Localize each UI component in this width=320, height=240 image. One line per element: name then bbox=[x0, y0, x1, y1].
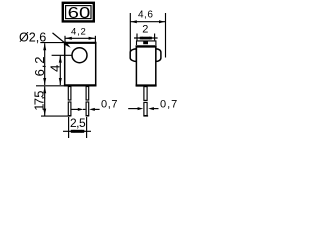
arrow pointing left at lead bbox=[148, 107, 154, 110]
short joint line to right lead bbox=[83, 108, 85, 110]
extension line right of 4,2 bbox=[94, 36, 96, 42]
arrow down 17,5 bbox=[43, 109, 46, 116]
arrow down 4 bbox=[59, 78, 62, 85]
line right of arrow to text bbox=[94, 108, 99, 110]
arrow pointing left at right lead bbox=[89, 108, 95, 111]
top reference line for 6,2 bbox=[40, 42, 64, 44]
dimension line 2,5 bbox=[63, 130, 91, 132]
arrow left 4,2 bbox=[65, 37, 72, 40]
arrow up 17,5 bbox=[43, 87, 46, 94]
right lead upper segment bbox=[86, 87, 89, 101]
dimension 0,7 left: line between leads bbox=[72, 108, 79, 110]
arrow left 4,6 bbox=[131, 20, 137, 23]
side body rectangle bbox=[136, 46, 155, 85]
dimension line 4,2 bbox=[65, 37, 95, 39]
svg-text:0,7: 0,7 bbox=[160, 98, 178, 110]
arrow up 6,2 bbox=[43, 43, 46, 50]
thick middle bar 2 bbox=[140, 37, 152, 40]
dimension line 17,5 bbox=[44, 86, 46, 115]
svg-text:17,5: 17,5 bbox=[32, 91, 47, 111]
side lead bottom cap bbox=[143, 115, 148, 117]
lead end extension line bbox=[41, 115, 70, 117]
svg-text:0,7: 0,7 bbox=[101, 98, 118, 110]
case number box inner frame bbox=[66, 6, 91, 19]
arrow down 6,2 bbox=[43, 78, 46, 85]
extension line right for 2,5 bbox=[86, 117, 88, 138]
leader line from Ø2,6 to hole bbox=[53, 33, 69, 46]
dimension line 4,6 bbox=[130, 21, 165, 23]
extension line right 4,6 bbox=[165, 13, 167, 58]
svg-text:2: 2 bbox=[142, 23, 148, 35]
left lead lower segment bbox=[68, 102, 71, 116]
dimension line 4 bbox=[59, 56, 61, 85]
left side bump bbox=[130, 49, 136, 62]
right lead lower segment bbox=[86, 102, 89, 116]
arrow right 4,2 bbox=[89, 37, 96, 40]
body top edge thick bbox=[64, 42, 97, 44]
right lead bottom cap bbox=[86, 115, 89, 117]
mounting hole circle bbox=[72, 48, 87, 63]
extension line left 2 bbox=[136, 34, 138, 41]
svg-text:4,6: 4,6 bbox=[138, 10, 153, 21]
top lid notch bbox=[143, 42, 148, 45]
right side bump bbox=[156, 49, 161, 62]
dimension 0,7 right: left line bbox=[128, 108, 138, 110]
extension line left 4,6 bbox=[129, 13, 131, 58]
arrow pointing right between leads bbox=[78, 108, 84, 111]
top lid bbox=[137, 41, 156, 45]
svg-text:60: 60 bbox=[68, 5, 91, 22]
side body bottom edge thick bbox=[136, 84, 157, 86]
left lead bottom cap bbox=[68, 115, 71, 117]
dimension line 6,2 bbox=[44, 43, 46, 85]
bottom reference line extended left bbox=[36, 85, 64, 87]
dimension line 2 bbox=[134, 37, 158, 39]
case number box outer frame bbox=[63, 3, 94, 22]
arrow pointing right-out 2,5 bbox=[81, 130, 87, 133]
svg-text:2,5: 2,5 bbox=[70, 116, 86, 130]
extension line left of 4,2 bbox=[64, 36, 66, 42]
side body top edge thick bbox=[136, 45, 157, 47]
arrow pointing right at lead bbox=[138, 107, 144, 110]
body bottom edge thick bbox=[64, 84, 97, 86]
side lead lower segment bbox=[144, 102, 147, 115]
arrow right 4,6 bbox=[159, 20, 165, 23]
line right under text bbox=[153, 108, 158, 110]
svg-text:4,2: 4,2 bbox=[71, 27, 87, 38]
arrow right-out 2 bbox=[149, 37, 154, 40]
arrow up 4 bbox=[59, 56, 62, 63]
left lead upper segment bbox=[68, 87, 71, 101]
extension line right 2 bbox=[154, 34, 156, 41]
arrow pointing left-out 2,5 bbox=[69, 130, 75, 133]
thick middle bar 2,5 bbox=[71, 130, 84, 133]
hole centerline bbox=[52, 54, 72, 56]
leader arrowhead at hole edge bbox=[64, 42, 71, 48]
extension line left for 2,5 bbox=[68, 117, 70, 138]
body rectangle bbox=[65, 43, 96, 86]
side lead upper segment bbox=[144, 87, 147, 101]
svg-text:6,2: 6,2 bbox=[32, 56, 47, 77]
svg-text:4: 4 bbox=[47, 65, 62, 72]
arrow left-out 2 bbox=[137, 37, 142, 40]
